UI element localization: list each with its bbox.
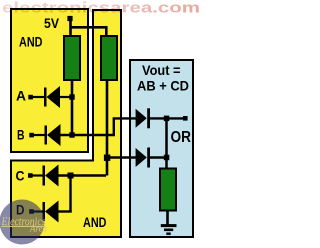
logo circle (Electronics Area) (0, 200, 45, 245)
junction Vout node bottom (164, 155, 170, 161)
svg-text:B: B (17, 127, 25, 143)
wire B lead (33, 134, 45, 136)
junction node C (68, 173, 74, 179)
diode D cathode bar (43, 202, 46, 221)
wire D lead (33, 210, 43, 212)
wire diode A to node (60, 96, 72, 98)
OR diode 1 cathode bar (147, 108, 150, 128)
svg-text:A: A (16, 88, 26, 104)
wire node AB vertical (71, 80, 74, 135)
ground (161, 226, 177, 234)
diode B (47, 124, 61, 146)
junction node A (69, 94, 74, 99)
OR diode 1 (136, 109, 147, 128)
wire node C down to diode D (69, 176, 71, 212)
terminal D (29, 209, 34, 214)
junction node B (69, 132, 74, 137)
wire Vout node vertical (165, 118, 168, 169)
wire diode C to node CD (58, 174, 106, 176)
wire diode D to vertical (58, 210, 72, 212)
wire C lead (32, 174, 43, 176)
svg-text:electronicsarea.com: electronicsarea.com (2, 0, 200, 17)
5V terminal (67, 16, 72, 21)
diode C cathode bar (43, 166, 46, 186)
junction Vout node top (164, 116, 170, 122)
OR diode 2 (136, 148, 147, 167)
junction node CD branch (104, 155, 110, 161)
resistor R3 (output pull-down) (160, 169, 176, 211)
wire A lead (32, 96, 44, 98)
wire 5V rail (70, 27, 107, 36)
svg-text:Area: Area (29, 224, 47, 234)
wire OR diode 1 to Vout node (150, 117, 167, 119)
svg-text:C: C (16, 168, 25, 184)
svg-text:AND: AND (19, 33, 43, 49)
resistor R1 (AND1 pull-up) (64, 36, 80, 80)
wire OR diode 2 to Vout node (150, 156, 167, 158)
OR diode 2 cathode bar (147, 148, 150, 168)
terminal A (28, 95, 33, 100)
svg-text:Vout =: Vout = (142, 62, 181, 78)
wire AND2 output to OR diode 2 (107, 156, 136, 158)
svg-text:AB + CD: AB + CD (137, 77, 189, 93)
wire node CD vertical (106, 80, 109, 176)
wire Vout to output terminal (167, 117, 184, 119)
terminal B (29, 133, 34, 138)
diode C (45, 165, 59, 187)
svg-text:OR: OR (171, 129, 192, 146)
diode A cathode bar (44, 88, 47, 107)
AND gate 2 box with pull-up column (yellow L-shape) (11, 10, 121, 237)
diode A (47, 86, 61, 108)
terminal C (28, 173, 33, 178)
diode D (45, 201, 59, 223)
resistor R2 (AND2 pull-up) (101, 36, 117, 80)
output terminal Vout (183, 116, 188, 121)
svg-text:AND: AND (83, 214, 107, 230)
svg-text:5V: 5V (44, 15, 60, 31)
wire 5V stub (69, 20, 72, 36)
AND gate 1 box (yellow) (11, 9, 88, 152)
diode B cathode bar (45, 126, 48, 145)
wire resistor to ground (166, 211, 169, 226)
OR gate box (light blue) (130, 60, 193, 237)
wire AND1 output to OR diode 1 (60, 118, 136, 135)
